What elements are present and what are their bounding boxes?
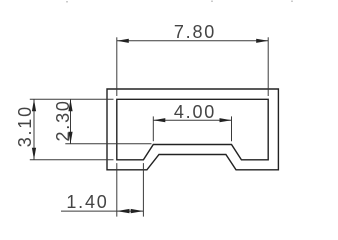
dimension 1.40: arrowhead pointing right xyxy=(131,209,144,213)
dimension 3.10: arrowhead bottom xyxy=(32,148,36,160)
svg-text:2.30: 2.30 xyxy=(53,99,73,141)
dimension 4.00: arrowhead right xyxy=(220,118,232,122)
stray speck top-middle xyxy=(211,1,213,3)
svg-text:7.80: 7.80 xyxy=(174,22,216,42)
stray speck top-right xyxy=(291,1,293,3)
svg-text:4.00: 4.00 xyxy=(174,102,216,122)
dimension 3.10: dimension line xyxy=(33,99,35,160)
dimension 7.80: extension line right xyxy=(267,37,269,96)
dimension 4.00: dimension line xyxy=(153,119,231,121)
dimension 4.00: extension line right xyxy=(231,116,233,141)
dimension 1.40: extension line right xyxy=(142,163,144,217)
dimension 7.80: dimension line xyxy=(117,40,268,42)
dimension 7.80: extension line left xyxy=(116,37,118,96)
outer profile contour xyxy=(107,89,278,170)
dimension 3.10: extension line bottom xyxy=(30,159,114,161)
dimension 2.30: extension line bottom xyxy=(65,143,151,145)
dimension 2.30: arrowhead bottom xyxy=(68,132,72,144)
dimension 4.00: extension line left xyxy=(152,116,154,141)
svg-text:3.10: 3.10 xyxy=(15,105,35,147)
dimension 1.40: dimension line with left tail xyxy=(61,210,143,212)
stray speck top-left xyxy=(66,1,68,3)
dimension 1.40: extension line left xyxy=(116,163,118,217)
dimension 3.10: arrowhead top xyxy=(32,99,36,111)
dimension 1.40: arrowhead pointing left xyxy=(117,209,130,213)
dimension 7.80: arrowhead right xyxy=(256,39,268,43)
dimension 3.10: extension line top xyxy=(30,98,114,100)
dimension 2.30: dimension line xyxy=(70,99,72,144)
dimension 7.80: arrowhead left xyxy=(117,39,129,43)
dimension 2.30: arrowhead top xyxy=(68,99,72,111)
svg-text:1.40: 1.40 xyxy=(66,192,108,212)
inner cavity contour xyxy=(117,99,268,160)
dimension 4.00: arrowhead left xyxy=(153,118,165,122)
